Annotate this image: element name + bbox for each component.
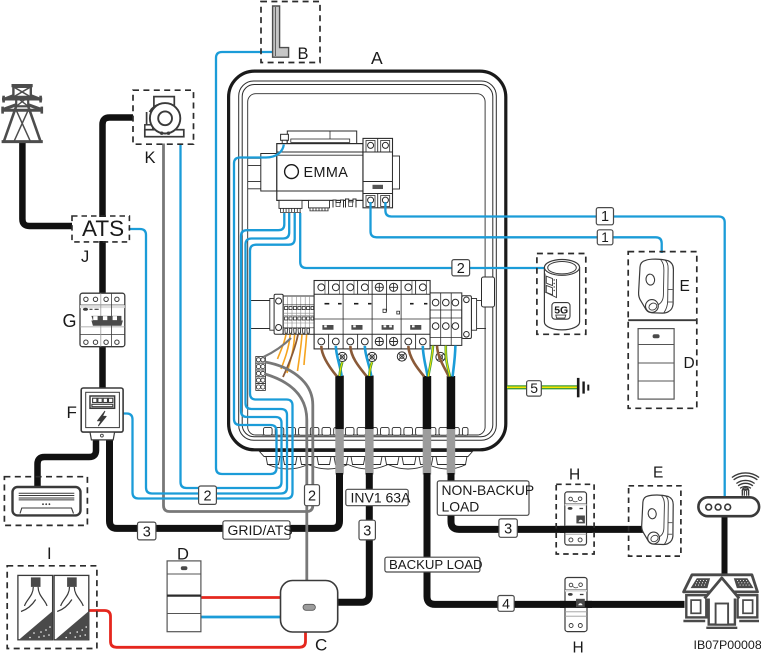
svg-text:3: 3 xyxy=(143,524,151,540)
5G dongle xyxy=(544,260,579,330)
module status dark stripe xyxy=(373,185,384,189)
red wire: PV panels to inverter xyxy=(89,611,306,648)
wire: meter F to air conditioner xyxy=(38,439,97,488)
EMMA top antenna bar xyxy=(287,131,356,144)
wire: grid tower to ATS xyxy=(22,142,72,226)
PV module 1 xyxy=(18,575,53,639)
PV module 2 xyxy=(54,575,89,639)
grid transmission tower xyxy=(1,86,43,142)
cable 3 sheath (backup load) xyxy=(423,376,432,430)
svg-text:F: F xyxy=(67,403,77,422)
label box 1 (charger wire) xyxy=(597,230,613,245)
cable 4 sheath (non-backup load) xyxy=(447,376,456,430)
breaker G xyxy=(80,293,125,347)
cable2 conductor wires xyxy=(350,346,366,376)
svg-text:J: J xyxy=(81,248,89,266)
gray wire: K meter down and into box xyxy=(164,144,313,512)
cable4 conductor wires xyxy=(437,346,449,377)
cable gland plate below box A xyxy=(260,452,473,470)
blue wire: EMMA COM to meter F xyxy=(122,213,295,499)
cable3 conductor wires xyxy=(408,346,424,377)
blue wire: EMMA COM to 5G dongle (2) xyxy=(300,213,546,268)
blue wire: EMMA module to charger E (1) xyxy=(371,202,662,253)
label box 3 (grid wire) xyxy=(138,522,156,540)
main breaker assembly xyxy=(314,281,430,349)
svg-text:H: H xyxy=(569,467,580,484)
svg-text:2: 2 xyxy=(308,488,316,504)
label box 4 (backup wire) xyxy=(498,595,514,611)
svg-text:I: I xyxy=(47,545,52,563)
svg-text:G: G xyxy=(63,311,77,331)
top terminal dividers xyxy=(325,281,427,295)
EMMA antenna connector port xyxy=(281,134,289,140)
blue wire: EMMA COM to ATS xyxy=(129,213,290,494)
module right small tab xyxy=(393,156,400,189)
K meter icon xyxy=(145,97,184,137)
blue wire: battery D to inverter xyxy=(200,616,282,619)
DIN rail lines for breaker row xyxy=(249,301,486,329)
svg-text:2: 2 xyxy=(204,489,212,505)
body pole dividers xyxy=(314,294,430,334)
label box 3 (non-backup wire) xyxy=(499,519,517,538)
earth washer W2 xyxy=(368,352,377,361)
distribution box A inner opening frame xyxy=(248,94,485,435)
svg-text:A: A xyxy=(371,48,383,68)
brown control wire under terminal block xyxy=(283,335,298,378)
svg-text:GRID/ATS: GRID/ATS xyxy=(228,522,293,538)
H1 wire pass-over xyxy=(560,526,592,533)
svg-text:4: 4 xyxy=(502,595,510,611)
wire: ATS down to breaker G xyxy=(99,241,106,295)
charger E bottom icon xyxy=(642,495,674,545)
interior grounding screw strip xyxy=(256,356,266,390)
svg-text:5: 5 xyxy=(530,380,538,396)
BACKUP LOAD label xyxy=(385,557,483,572)
battery D bottom xyxy=(167,561,201,632)
svg-text:LOAD: LOAD xyxy=(442,499,480,515)
bottom terminal screws xyxy=(318,337,426,345)
wire: ATS up to generation meter K xyxy=(103,118,134,218)
top terminal screws xyxy=(318,283,426,291)
svg-text:1: 1 xyxy=(601,230,609,245)
RCBO H2 xyxy=(565,578,587,632)
wire: backup cable3 to house xyxy=(427,473,685,604)
svg-text:D: D xyxy=(177,546,189,564)
svg-text:5G: 5G xyxy=(554,304,568,316)
svg-text:H: H xyxy=(573,640,584,654)
svg-text:BACKUP LOAD: BACKUP LOAD xyxy=(389,557,483,572)
white dot grid on left solar panel xyxy=(695,580,707,586)
H2 wire pass-over xyxy=(560,601,592,608)
router wifi symbol xyxy=(732,473,759,496)
distribution box A outer frame xyxy=(229,71,506,450)
svg-text:K: K xyxy=(145,149,156,167)
earth washer W4 xyxy=(436,352,445,361)
EMMA port icon pair xyxy=(333,199,356,208)
blue wire: EMMA antenna port to external antenna B xyxy=(216,52,284,474)
cable 1 sheath (grid) xyxy=(335,376,344,430)
PV dashed enclosure I xyxy=(7,566,97,649)
earth wire (5) to ground bar xyxy=(507,385,577,389)
cable1 conductor wires xyxy=(321,346,336,376)
white dot grid on right solar panel xyxy=(737,580,750,586)
svg-text:B: B xyxy=(298,45,309,63)
svg-text:3: 3 xyxy=(363,524,371,540)
svg-text:1: 1 xyxy=(601,209,609,225)
label box 2 (inverter COM) xyxy=(305,485,320,506)
cable clamp bump row inside box bottom xyxy=(262,427,468,435)
label box 2 (signal bundle) xyxy=(199,486,217,505)
label box 2 (dongle wire) xyxy=(452,260,470,277)
antenna B dashed enclosure xyxy=(261,2,320,63)
charger E top icon xyxy=(639,259,674,313)
EMMA main body xyxy=(277,144,363,201)
RCBO H1 dashed enclosure xyxy=(556,484,594,554)
orange control wires under terminal block xyxy=(278,335,307,374)
battery D right xyxy=(638,329,674,400)
right wall duct box xyxy=(482,277,495,307)
svg-text:IB07P00008: IB07P00008 xyxy=(694,638,761,652)
router xyxy=(698,497,759,516)
svg-text:D: D xyxy=(684,355,695,372)
divider between E and D enclosures xyxy=(628,319,697,321)
EMMA left DIN tab xyxy=(248,157,262,159)
charger E top dashed enclosure xyxy=(628,252,697,409)
GRID/ATS label xyxy=(223,521,293,539)
svg-text:ATS: ATS xyxy=(82,216,124,241)
ATS box J xyxy=(72,216,129,242)
left end screw terminal xyxy=(274,294,283,334)
svg-text:NON-BACKUP: NON-BACKUP xyxy=(442,482,535,498)
air conditioner icon xyxy=(13,487,81,515)
left DIN terminal block xyxy=(283,296,314,334)
EMMA bottom connector block 2 xyxy=(309,200,330,208)
inverter C xyxy=(281,581,338,633)
cable 2 sheath (inverter) xyxy=(365,376,374,430)
label box 3 (inverter wire) xyxy=(359,520,375,540)
INV1 63A label xyxy=(346,489,411,505)
ground symbol xyxy=(578,378,588,397)
air conditioner dashed enclosure xyxy=(4,477,87,526)
breaker toggles xyxy=(322,325,421,330)
house icon xyxy=(683,575,759,628)
gray wire: box to inverter C COM xyxy=(265,374,307,581)
wire: breaker G to meter F xyxy=(99,345,106,390)
distribution box A inner frame line 1 xyxy=(239,81,497,440)
label box 5 (earth wire) xyxy=(527,380,542,396)
earth washer W1 xyxy=(338,352,347,361)
svg-text:E: E xyxy=(653,465,663,482)
pole markings xyxy=(325,303,428,305)
H2 breaker button over wire xyxy=(576,599,585,607)
EMMA attached breaker module xyxy=(363,138,393,207)
NON-BACKUP LOAD label xyxy=(437,481,534,515)
EMMA logo circle xyxy=(285,165,299,179)
svg-text:C: C xyxy=(315,636,327,654)
5G dongle dashed enclosure xyxy=(537,254,586,335)
left rail end clamp xyxy=(270,299,275,331)
right end screw terminal xyxy=(462,296,472,339)
svg-text:E: E xyxy=(680,278,690,295)
EMMA controller U1 xyxy=(248,131,400,212)
antenna B xyxy=(273,6,289,57)
right rail end clamp xyxy=(471,299,476,331)
wire: INV1 cable2 to inverter C xyxy=(337,473,369,602)
svg-text:3: 3 xyxy=(504,522,512,538)
distribution box A inner frame line 2 xyxy=(242,85,493,437)
EMMA bottom connector block 1 xyxy=(279,200,302,208)
meter F xyxy=(81,388,123,440)
RCBO H1 xyxy=(565,492,587,545)
wire: GRID/ATS cable1 to meter F xyxy=(110,439,340,528)
wire: router to house xyxy=(722,516,728,576)
right terminal block xyxy=(430,293,462,346)
bottom terminal dividers xyxy=(329,334,416,349)
svg-text:EMMA: EMMA xyxy=(304,165,349,181)
K dashed enclosure xyxy=(133,90,194,144)
red wire: battery D to inverter xyxy=(200,596,282,599)
svg-text:INV1 63A: INV1 63A xyxy=(351,489,412,505)
gray interior wire to DIN block xyxy=(264,338,292,357)
svg-text:2: 2 xyxy=(457,261,465,277)
blue wire: EMMA COM to K meter xyxy=(181,144,285,489)
label box 1 (router wire) xyxy=(596,208,613,226)
blue wire: EMMA module to router (1) xyxy=(385,202,724,498)
wire: non-backup cable4 to charger E xyxy=(451,473,647,529)
charger E bottom dashed enclosure xyxy=(629,486,681,556)
earth washer W3 xyxy=(397,352,406,361)
